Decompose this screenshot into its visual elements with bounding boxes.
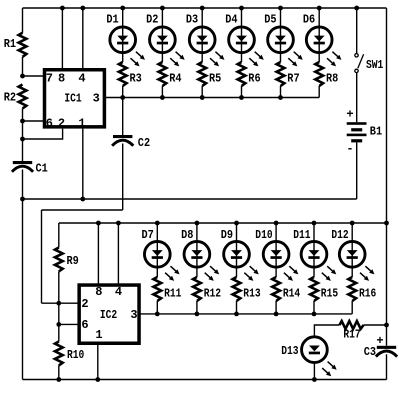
svg-text:1: 1 (78, 116, 85, 130)
svg-text:8: 8 (95, 285, 102, 299)
svg-text:D5: D5 (264, 13, 276, 27)
node R5 bus1a junction (200, 95, 205, 100)
resistor R17 (340, 321, 364, 329)
node pin8 top junction (60, 6, 65, 11)
wire right rail upper (386, 8, 388, 223)
node D5 top junction (278, 6, 283, 11)
wire IC2 pin3 to bus3 (140, 313, 157, 315)
node D12 bus2 junction (350, 221, 355, 226)
svg-text:R1: R1 (4, 37, 16, 51)
node R11 bus3 junction (155, 312, 160, 317)
wire pin3 node to C2 (122, 98, 124, 136)
wire R9 to pin2 node (58, 272, 60, 304)
wire IC1 pin3 to bus1a (105, 97, 123, 99)
svg-text:+: + (346, 108, 353, 122)
svg-text:R17: R17 (343, 328, 360, 342)
node D9 bus2 junction (234, 221, 239, 226)
node R14 bus3 junction (274, 312, 279, 317)
wire D10 column (275, 223, 277, 277)
node R12 bus3 junction (195, 312, 200, 317)
svg-text:7: 7 (46, 72, 53, 86)
wire bus1a R3-R8 bottoms (123, 97, 320, 99)
svg-text:R12: R12 (204, 287, 221, 301)
wire bus2 to R9 (58, 223, 60, 248)
node R7 bus1a junction (278, 95, 283, 100)
node R13 bus3 junction (234, 312, 239, 317)
svg-text:2: 2 (58, 116, 65, 130)
svg-text:R3: R3 (130, 72, 142, 86)
svg-text:D6: D6 (303, 13, 315, 27)
wire D2 column (161, 8, 163, 62)
wire D3 column (201, 8, 203, 62)
wire R14 to bus3 (275, 301, 277, 314)
node R6 bus1a junction (239, 95, 244, 100)
svg-text:B1: B1 (370, 124, 382, 138)
resistor R7 (277, 62, 285, 86)
node IC1 pin6 junction (20, 119, 25, 124)
wire C2 coupling horizontal (42, 209, 123, 211)
LED D6 (306, 27, 332, 53)
node R3 bus1a junction (120, 95, 125, 100)
wire IC1 pin8 to top bus (61, 8, 63, 69)
wire IC1 pin4 to top bus (82, 8, 84, 69)
svg-text:R13: R13 (243, 287, 260, 301)
svg-text:D8: D8 (181, 228, 193, 242)
node IC2 pin6 junction (56, 322, 61, 327)
resistor R2 (19, 85, 27, 109)
wire pin7 to IC1 (23, 75, 45, 77)
svg-text:IC1: IC1 (64, 91, 81, 105)
wire IC1 pin2 lead (23, 129, 63, 139)
wire left rail top (to R1) (22, 8, 24, 33)
wire right rail middle (386, 223, 388, 325)
wire R10 to ground (58, 366, 60, 380)
svg-text:6: 6 (46, 116, 53, 130)
node D1 top junction (120, 6, 125, 11)
node right rail R17 junction (384, 323, 389, 328)
resistor R13 (233, 277, 241, 301)
svg-text:3: 3 (130, 308, 137, 322)
wire D9 column (236, 223, 238, 277)
node D10 bus2 junction (274, 221, 279, 226)
switch SW1 lever (358, 54, 364, 68)
wire R11 to bus3 (156, 301, 158, 314)
wire D8 column (196, 223, 198, 277)
node D2 top junction (160, 6, 165, 11)
wire coupling to IC2 pin2 node (42, 302, 59, 304)
capacitor C2 (113, 135, 132, 138)
resistor R11 (153, 277, 161, 301)
svg-text:R4: R4 (169, 72, 181, 86)
wire C1 to ground bus (22, 170, 24, 200)
svg-text:R14: R14 (283, 287, 300, 301)
wire ground bottom bus (23, 379, 387, 381)
wire D1 column (122, 8, 124, 62)
wire bus1 battery negative (23, 198, 357, 200)
LED D7 (144, 241, 170, 267)
resistor R9 (55, 248, 63, 272)
capacitor C1 (13, 161, 32, 164)
svg-text:R16: R16 (359, 287, 376, 301)
svg-text:R10: R10 (67, 348, 84, 362)
wire D6 column (318, 8, 320, 62)
battery B1 (347, 122, 367, 125)
wire pin6 node to IC2 (59, 323, 79, 325)
svg-text:4: 4 (115, 285, 122, 299)
svg-text:D9: D9 (221, 228, 233, 242)
wire pin6 to IC1 (23, 120, 45, 122)
node IC1 pin2 junction (20, 137, 25, 142)
wire D12 column (351, 223, 353, 277)
switch SW1 top contact (355, 54, 358, 57)
svg-text:R6: R6 (248, 72, 260, 86)
svg-text:R2: R2 (4, 91, 16, 105)
resistor R12 (193, 277, 201, 301)
svg-text:C1: C1 (36, 162, 48, 176)
resistor R8 (315, 62, 323, 86)
svg-text:D12: D12 (331, 228, 348, 242)
wire C3 to bottom bus (386, 354, 388, 379)
resistor R3 (119, 62, 127, 86)
wire pin2 node to IC2 (59, 302, 79, 304)
resistor R6 (238, 62, 246, 86)
node IC2 pin1 ground junction (95, 377, 100, 382)
wire R7 to bus1a (280, 86, 282, 98)
wire D4 column (241, 8, 243, 62)
switch SW1 bottom contact (355, 69, 358, 72)
wire battery to bus1 (356, 142, 358, 199)
svg-text:R7: R7 (287, 72, 299, 86)
node IC1 pin1 ground junction (80, 197, 85, 202)
wire coupling vertical (41, 210, 43, 303)
node C1/ground junction (20, 197, 25, 202)
node D6 top junction (317, 6, 322, 11)
node D13 ground junction (312, 377, 317, 382)
resistor R10 (55, 342, 63, 366)
resistor R14 (272, 277, 280, 301)
node D3 top junction (200, 6, 205, 11)
svg-text:D7: D7 (142, 228, 154, 242)
wire node pin6 to node pin2 (22, 121, 24, 139)
node switch top junction (354, 6, 359, 11)
wire R8 to bus1a corner (318, 86, 320, 98)
wire R16 to bus3 corner (351, 301, 353, 314)
wire D7 column (156, 223, 158, 277)
node IC2 pin8 bus2 junction (96, 221, 101, 226)
wire D13 to ground (313, 363, 315, 380)
svg-text:D13: D13 (281, 344, 298, 358)
resistor R1 (19, 33, 27, 57)
LED D10 (263, 241, 289, 267)
svg-text:8: 8 (58, 72, 65, 86)
wire pin2 node to pin6 node (58, 303, 60, 324)
svg-text:R8: R8 (326, 72, 338, 86)
LED D9 (224, 241, 250, 267)
svg-text:C2: C2 (138, 136, 150, 150)
node D4 top junction (239, 6, 244, 11)
svg-text:R5: R5 (209, 72, 221, 86)
node pin4 top junction (80, 6, 85, 11)
wire R2 to node pin6 (22, 109, 24, 122)
wire bus2 second supply (59, 222, 387, 224)
wire IC1 pin1 down (82, 129, 84, 199)
wire D5 column (280, 8, 282, 62)
svg-text:SW1: SW1 (366, 58, 383, 72)
wire R17 to right rail (364, 324, 387, 326)
op-amp/timer IC2 box (79, 285, 139, 343)
LED D2 (150, 27, 176, 53)
wire IC2 pin8 to bus2 (97, 223, 99, 286)
node R10 ground junction (56, 377, 61, 382)
wire R3 to bus1a (122, 86, 124, 98)
LED D3 (189, 27, 215, 53)
wire R15 to bus3 (313, 301, 315, 314)
wire bus3 R11-R16 bottoms (157, 313, 352, 315)
wire IC2 pin1 to ground (97, 344, 99, 379)
wire R1 to node pin7 (22, 57, 24, 76)
wire R6 to bus1a (241, 86, 243, 98)
svg-text:2: 2 (81, 297, 88, 311)
svg-text:D1: D1 (106, 13, 118, 27)
wire R13 to bus3 (236, 301, 238, 314)
svg-text:D3: D3 (186, 13, 198, 27)
svg-text:D2: D2 (146, 13, 158, 27)
node D8 bus2 junction (195, 221, 200, 226)
svg-text:C3: C3 (364, 345, 376, 359)
LED D4 (229, 27, 255, 53)
svg-text:R9: R9 (67, 254, 79, 268)
LED D1 (110, 27, 136, 53)
wire pin6 node to R10 (58, 324, 60, 341)
node IC2 pin4 bus2 junction (116, 221, 121, 226)
svg-text:D11: D11 (293, 228, 310, 242)
wire top bus to switch (356, 8, 358, 54)
capacitor C3 (377, 346, 396, 349)
LED D5 (268, 27, 294, 53)
svg-text:R11: R11 (164, 287, 181, 301)
svg-text:D4: D4 (225, 13, 237, 27)
wire R4 to bus1a (161, 86, 163, 98)
svg-text:-: - (346, 142, 353, 156)
node IC2 pin2 junction (56, 301, 61, 306)
op-amp/timer IC1 box (45, 70, 105, 127)
node R4 bus1a junction (160, 95, 165, 100)
LED D13 (302, 337, 328, 363)
wire node pin2 to C1 (22, 139, 24, 161)
wire R5 to bus1a (201, 86, 203, 98)
node IC1 pin7 junction (20, 74, 25, 79)
resistor R4 (159, 62, 167, 86)
LED D8 (184, 241, 210, 267)
wire right rail to C3 (386, 325, 388, 346)
svg-text:3: 3 (93, 91, 100, 105)
wire IC2 pin4 to bus2 (117, 223, 119, 286)
resistor R5 (198, 62, 206, 86)
wire C2 down (122, 144, 124, 211)
resistor R15 (310, 277, 318, 301)
svg-text:6: 6 (81, 318, 88, 332)
wire top supply bus (23, 7, 387, 9)
node D11 bus2 junction (312, 221, 317, 226)
svg-text:IC2: IC2 (100, 308, 117, 322)
wire switch to battery (356, 73, 358, 122)
LED D12 (339, 241, 365, 267)
LED D11 (301, 241, 327, 267)
svg-text:R15: R15 (321, 287, 338, 301)
node R15 bus3 junction (312, 312, 317, 317)
wire R12 to bus3 (196, 301, 198, 314)
resistor R16 (348, 277, 356, 301)
wire left rail lower (22, 199, 24, 380)
wire D11 column (313, 223, 315, 277)
node D7 bus2 junction (155, 221, 160, 226)
svg-text:1: 1 (95, 328, 102, 342)
svg-text:+: + (376, 334, 383, 348)
node right rail bus2 junction (384, 221, 389, 226)
svg-text:D10: D10 (255, 228, 272, 242)
wire D13 top lead (314, 325, 339, 336)
svg-text:4: 4 (78, 72, 85, 86)
